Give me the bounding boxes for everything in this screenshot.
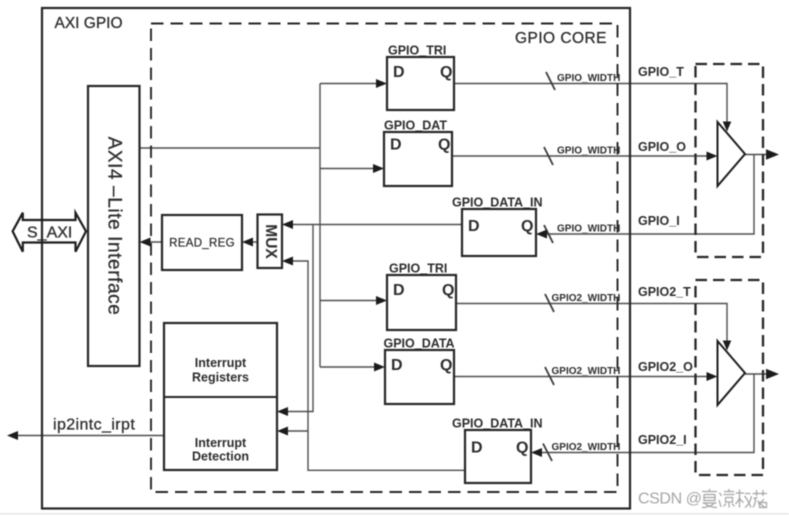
svg-text:GPIO2_T: GPIO2_T (638, 285, 691, 299)
svg-text:Interrupt: Interrupt (195, 356, 247, 370)
svg-text:GPIO_DATA_IN: GPIO_DATA_IN (452, 417, 543, 431)
svg-text:READ_REG: READ_REG (169, 238, 235, 250)
svg-text:CSDN @: CSDN @ (638, 491, 702, 508)
svg-text:GPIO_TRI: GPIO_TRI (389, 262, 447, 276)
svg-text:ip2intc_irpt: ip2intc_irpt (53, 417, 135, 434)
svg-text:D: D (390, 137, 402, 154)
svg-text:D: D (468, 218, 480, 235)
svg-text:GPIO_O: GPIO_O (638, 140, 686, 154)
svg-text:GPIO2_I: GPIO2_I (638, 433, 687, 447)
svg-text:Registers: Registers (192, 371, 249, 385)
svg-text:MUX: MUX (262, 224, 279, 259)
svg-text:AXI GPIO: AXI GPIO (55, 15, 123, 32)
svg-text:GPIO2_O: GPIO2_O (638, 360, 693, 374)
svg-text:GPIO_TRI: GPIO_TRI (388, 44, 446, 58)
svg-text:GPIO_WIDTH: GPIO_WIDTH (557, 146, 620, 157)
svg-text:GPIO_DATA: GPIO_DATA (384, 337, 455, 351)
svg-text:Q: Q (521, 218, 533, 235)
svg-text:Detection: Detection (192, 450, 249, 464)
svg-text:GPIO2_WIDTH: GPIO2_WIDTH (552, 366, 621, 377)
svg-text:AXI4 –Lite Interface: AXI4 –Lite Interface (104, 137, 125, 316)
svg-text:D: D (471, 440, 483, 457)
svg-text:GPIO_T: GPIO_T (638, 65, 684, 79)
svg-text:GPIO2_WIDTH: GPIO2_WIDTH (552, 442, 621, 453)
svg-text:GPIO2_WIDTH: GPIO2_WIDTH (552, 293, 621, 304)
svg-text:GPIO_DATA_IN: GPIO_DATA_IN (452, 196, 543, 210)
svg-text:Q: Q (516, 440, 528, 457)
svg-text:Interrupt: Interrupt (195, 436, 247, 450)
svg-text:Q: Q (440, 64, 452, 81)
svg-text:GPIO_WIDTH: GPIO_WIDTH (557, 73, 620, 84)
svg-text:GPIO_DAT: GPIO_DAT (384, 119, 447, 133)
svg-text:D: D (393, 64, 405, 81)
svg-text:GPIO CORE: GPIO CORE (515, 30, 607, 47)
svg-text:Q: Q (440, 357, 452, 374)
svg-text:D: D (391, 357, 403, 374)
svg-text:D: D (393, 282, 405, 299)
svg-text:GPIO_I: GPIO_I (638, 214, 680, 228)
svg-text:Q: Q (438, 137, 450, 154)
svg-text:GPIO_WIDTH: GPIO_WIDTH (557, 224, 620, 235)
svg-text:Q: Q (442, 282, 454, 299)
svg-text:S_AXI: S_AXI (27, 225, 72, 242)
